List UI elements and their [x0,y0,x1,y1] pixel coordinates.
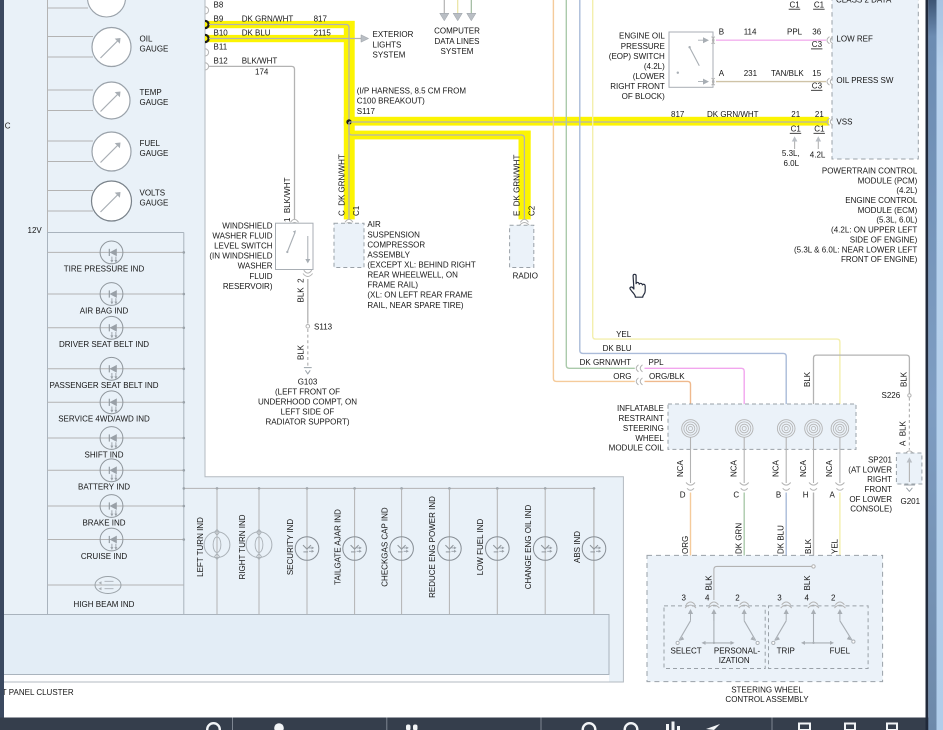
indicator lamp: ABS IND [573,487,606,614]
svg-text:4: 4 [805,593,810,602]
svg-text:COMPRESSOR: COMPRESSOR [367,240,425,249]
svg-text:S113: S113 [314,322,333,331]
switch: FUEL [830,621,855,656]
svg-text:YEL: YEL [616,330,632,339]
toolbar icon: marks [406,725,411,730]
connector pin H [803,483,818,500]
connector: steering wheel assembly pin 2 at x=744.2 [735,593,749,621]
svg-text:GAUGE: GAUGE [140,149,169,158]
wire: DK BLU down to steering wheel controls [785,493,787,601]
svg-text:ASSEMBLY: ASSEMBLY [367,250,410,259]
svg-text:B9: B9 [214,15,224,24]
svg-text:FLUID: FLUID [249,272,272,281]
module: inflatable restraint steering wheel module coil [609,404,856,453]
svg-text:HIGH BEAM IND: HIGH BEAM IND [74,600,135,609]
switch: SELECT [671,621,702,656]
svg-text:AIR: AIR [367,220,381,229]
indicator lamp: LEFT TURN IND [196,487,230,614]
inline connector (DK GRN/WHT : PPL) [636,365,642,372]
svg-text:PERSONAL-: PERSONAL- [714,647,761,656]
svg-text:RAIL, NEAR SPARE TIRE): RAIL, NEAR SPARE TIRE) [367,301,464,310]
wire: cluster 12V feed bus [47,0,49,233]
ground G103 [258,368,357,427]
svg-text:MODULE COIL: MODULE COIL [609,444,665,453]
wire: DK GRN/WHT 817 from B9 to S117 [209,15,349,220]
indicator lamp: SHIFT IND [48,427,186,460]
connector pin B11 (cluster) [205,42,228,56]
svg-text:LOW FUEL IND: LOW FUEL IND [476,518,485,575]
svg-text:BLK: BLK [803,575,812,591]
svg-text:A BLK: A BLK [898,420,907,446]
svg-text:B: B [776,491,781,500]
svg-text:ORG/BLK: ORG/BLK [649,372,685,381]
svg-text:PASSENGER SEAT BELT IND: PASSENGER SEAT BELT IND [49,381,158,390]
svg-text:(LOWER: (LOWER [633,72,665,81]
label: PCM / ECM description [794,167,918,265]
svg-text:(4.2L): (4.2L) [644,62,665,71]
connector at PCM VSS [827,118,833,125]
switch: engine oil pressure (EOP) switch [609,32,713,102]
svg-text:NCA: NCA [772,459,781,477]
indicator lamp: BRAKE IND [48,495,186,528]
svg-text:G103: G103 [298,377,318,386]
wire: DK BLU 2115 from B10 to exterior lights system [209,29,361,39]
wire: BLK down to steering wheel controls [813,493,815,601]
switch common bar (right, pin 4) [801,613,834,645]
svg-text:ABS IND: ABS IND [573,531,582,563]
wire: coil D down to connector [690,437,692,483]
connector: steering wheel assembly pin 3 at x=786.2 [777,593,791,621]
svg-text:DK GRN/WHT: DK GRN/WHT [580,358,632,367]
wire: ORG down to steering wheel controls [690,493,692,601]
svg-text:B: B [719,27,724,36]
gauge (cut off at top) [48,0,126,17]
svg-text:231: 231 [744,69,758,78]
highlight: circuit trace (yellow) [205,21,829,220]
wire: class 2 data line (grey) to computer data lines system [443,0,445,13]
svg-text:WHEEL: WHEEL [635,434,664,443]
svg-text:SHIFT IND: SHIFT IND [85,450,124,459]
svg-text:OF BLOCK): OF BLOCK) [622,92,665,101]
svg-text:WASHER: WASHER [238,262,273,271]
mouse cursor (hand pointer) [630,274,645,297]
indicator lamp: AIR BAG IND [48,283,186,316]
connector C1 C1 (class 2 data, cut at top) [789,0,892,10]
connector pin B10 (cluster) [205,29,228,43]
connector pin B [776,483,791,500]
svg-text:PRESSURE: PRESSURE [621,42,665,51]
svg-text:1 BLK/WHT: 1 BLK/WHT [283,177,292,222]
connector: washer switch pin 1 [290,219,300,225]
svg-text:WASHER FLUID: WASHER FLUID [212,232,272,241]
svg-text:(IN WINDSHIELD: (IN WINDSHIELD [209,252,272,261]
svg-text:C100 BREAKOUT): C100 BREAKOUT) [357,97,425,106]
svg-text:3: 3 [777,593,782,602]
svg-text:TEMP: TEMP [140,88,162,97]
indicator lamp: HIGH BEAM IND [48,577,184,609]
indicator lamp: CHECKGAS CAP IND [380,487,413,614]
off-page arrows: computer data lines system [434,13,480,56]
ground G201 [901,485,921,506]
wire: BLK from S113 to G103 [297,329,308,366]
indicator lamp: CRUISE IND [48,528,186,561]
svg-text:RADIO: RADIO [513,271,538,280]
right window border: light blue edge [937,0,943,730]
svg-text:C: C [733,491,739,500]
svg-text:ENGINE CONTROL: ENGINE CONTROL [845,196,918,205]
svg-text:DK BLU: DK BLU [242,29,271,38]
svg-text:C1: C1 [814,125,825,134]
svg-text:CHANGE ENG OIL IND: CHANGE ENG OIL IND [524,504,533,589]
module: steering wheel control assembly (outer dashed box) [647,555,883,681]
svg-text:B12: B12 [214,56,229,65]
coil (clockspring) at pin A [831,420,849,438]
wire: BLK from coil module pin H up and right to S226 [814,355,910,420]
svg-text:BLK 2: BLK 2 [297,278,306,303]
svg-text:REDUCE ENG POWER IND: REDUCE ENG POWER IND [428,496,437,598]
oil gauge [48,28,169,67]
switch group box (trip / fuel) [769,606,869,669]
wire: coil A down to connector [839,437,841,483]
svg-text:COMPUTER: COMPUTER [434,27,480,36]
svg-text:SELECT: SELECT [671,647,702,656]
switch: TRIP [772,621,795,656]
wire: coil H down to connector [813,437,815,483]
svg-text:C DK GRN/WHT: C DK GRN/WHT [338,154,347,216]
svg-text:BLK: BLK [804,538,813,554]
connector pin B12 (cluster) [205,56,228,70]
module: radio [510,225,538,280]
connector: washer switch pin 2 [303,270,313,276]
toolbar icon: circle 1 [207,723,220,730]
svg-text:DK BLU: DK BLU [777,525,786,554]
indicator lamp: PASSENGER SEAT BELT IND [48,357,186,390]
svg-text:RIGHT TURN IND: RIGHT TURN IND [238,514,247,579]
svg-text:AIR BAG IND: AIR BAG IND [80,306,129,315]
svg-text:RADIATOR SUPPORT): RADIATOR SUPPORT) [265,418,349,427]
svg-text:RIGHT: RIGHT [867,475,892,484]
svg-text:ORG: ORG [681,536,690,554]
svg-text:NCA: NCA [799,459,808,477]
toolbar icon: circle 2 [583,723,596,730]
left window edge (dark) [0,0,4,718]
svg-text:A: A [719,69,725,78]
svg-text:MODULE (ECM): MODULE (ECM) [858,206,918,215]
wire: ORG from top to inline connector (becomes ORG/BLK) [553,0,634,381]
svg-text:MODULE (PCM): MODULE (PCM) [858,176,918,185]
off-page arrow: exterior lights system [361,30,414,60]
svg-text:EXTERIOR: EXTERIOR [373,30,414,39]
switch group box (select / personalization) [664,606,765,669]
switch: PERSONALIZATION [714,621,761,665]
label: steering wheel control assembly [725,686,809,704]
svg-text:SP201: SP201 [868,456,893,465]
wire: BLK 2 from washer switch to S113 [297,278,308,324]
indicator lamp: SERVICE 4WD/AWD IND [48,391,186,424]
svg-text:PPL: PPL [787,27,803,36]
svg-text:(XL: ON LEFT REAR FRAME: (XL: ON LEFT REAR FRAME [367,291,472,300]
svg-text:BRAKE IND: BRAKE IND [82,518,125,527]
svg-text:C1: C1 [790,1,801,10]
svg-text:BLK: BLK [705,575,714,591]
indicator lamp: BATTERY IND [48,459,186,492]
instrument panel cluster interior fill (left column) [4,0,205,477]
svg-text:LIGHTS: LIGHTS [373,40,402,49]
svg-text:(I/P HARNESS, 8.5 CM FROM: (I/P HARNESS, 8.5 CM FROM [357,87,467,96]
svg-text:(5.3L, 6.0L): (5.3L, 6.0L) [876,216,917,225]
svg-text:TRIP: TRIP [777,647,795,656]
svg-text:114: 114 [744,27,757,36]
bottom toolbar [0,718,936,730]
junction: BLK branch node [714,565,815,600]
indicator lamp: REDUCE ENG POWER IND [428,487,461,614]
connector pin B8 (cluster) [205,0,224,14]
svg-text:CONSOLE): CONSOLE) [850,505,892,514]
svg-text:LEVEL SWITCH: LEVEL SWITCH [214,242,273,251]
wire: DK GRN/WHT from S117 to radio C2 [349,122,524,219]
svg-text:21: 21 [791,110,800,119]
svg-text:SYSTEM: SYSTEM [441,47,474,56]
splice S226 [882,391,912,400]
connector: steering wheel assembly pin 4 at x=813.5 [805,593,819,621]
svg-text:DK GRN/WHT: DK GRN/WHT [242,15,294,24]
svg-text:SIDE OF ENGINE): SIDE OF ENGINE) [850,235,918,244]
svg-text:NCA: NCA [730,459,739,477]
wire labels: YEL / DK BLU / DK GRN/WHT / PPL / ORG / ORG/BLK [580,330,686,381]
indicator lamp: SECURITY IND [286,487,319,614]
svg-text:NCA: NCA [676,459,685,477]
wire: DK BLU from top to coil module pin B [580,0,786,420]
temp gauge [48,82,169,119]
svg-text:INFLATABLE: INFLATABLE [617,404,664,413]
svg-text:SYSTEM: SYSTEM [373,51,406,60]
instrument panel cluster outline [0,0,623,682]
indicator lamp: TIRE PRESSURE IND [48,241,186,274]
fuel gauge [48,132,169,171]
svg-text:STEERING WHEEL: STEERING WHEEL [731,686,803,695]
toolbar icon: person [274,723,284,730]
svg-text:SECURITY IND: SECURITY IND [286,519,295,576]
svg-text:BLK: BLK [297,344,306,360]
indicator lamp box [48,233,184,615]
svg-text:817: 817 [314,15,328,24]
wire: DK GRN down to steering wheel controls [743,493,745,601]
connector at PCM OIL PRESS SW [827,78,833,85]
toolbar icon: send arrow [706,724,720,730]
svg-text:STEERING: STEERING [623,424,664,433]
svg-text:C1: C1 [814,1,825,10]
svg-text:FRONT OF ENGINE): FRONT OF ENGINE) [841,255,918,264]
connector C2 (radio) [519,219,529,225]
svg-text:(4.2L): (4.2L) [896,186,917,195]
svg-text:LEFT TURN IND: LEFT TURN IND [196,517,205,577]
coil (clockspring) at pin D [682,420,700,438]
svg-text:36: 36 [812,27,821,36]
connector pin A [830,483,845,500]
svg-text:NCA: NCA [825,459,834,477]
svg-text:POWERTRAIN CONTROL: POWERTRAIN CONTROL [822,167,918,176]
svg-text:TAN/BLK: TAN/BLK [771,69,804,78]
toolbar icon: square 1 [799,724,810,730]
svg-text:2: 2 [831,593,836,602]
indicator lamp: TAILGATE AJAR IND [333,487,366,614]
wire: coil B down to connector [785,437,787,483]
module: powertrain control module (PCM) dashed box [832,0,918,159]
connector at EOP pin A [712,78,715,85]
instrument panel cluster interior fill (lower area) [4,477,623,682]
svg-text:B11: B11 [214,42,228,51]
svg-text:FRAME RAIL): FRAME RAIL) [367,281,418,290]
svg-text:174: 174 [255,68,269,77]
svg-text:817: 817 [671,110,685,119]
svg-text:C1: C1 [352,205,361,216]
connector C1 (air suspension compressor) [344,219,354,225]
indicator lamp: RIGHT TURN IND [238,487,272,614]
wire: BLK A from S226 to SP201 [898,398,909,450]
svg-text:RIGHT FRONT: RIGHT FRONT [610,82,665,91]
svg-text:2115: 2115 [314,29,332,38]
svg-text:CLASS 2 DATA: CLASS 2 DATA [836,0,892,5]
wire: YEL from top to coil module pin A [593,0,840,420]
indicator lamp: DRIVER SEAT BELT IND [48,316,186,349]
svg-text:WINDSHIELD: WINDSHIELD [222,221,272,230]
toolbar icon: circle 3 [625,723,638,730]
coil (clockspring) at pin B [777,420,795,438]
svg-text:RESTRAINT: RESTRAINT [618,414,663,423]
svg-text:DATA LINES: DATA LINES [434,37,479,46]
wire: DK GRN/WHT from top to inline connector (becomes PPL) [566,0,635,368]
connector pin D [680,483,695,500]
svg-text:BLK: BLK [899,371,908,387]
svg-text:B10: B10 [214,29,229,38]
svg-text:S226: S226 [882,391,901,400]
svg-text:CRUISE IND: CRUISE IND [81,552,127,561]
svg-text:REAR WHEELWELL, ON: REAR WHEELWELL, ON [367,271,458,280]
coil (clockspring) at pin H [805,420,823,438]
svg-text:ENGINE OIL: ENGINE OIL [619,32,665,41]
splice S117 [346,87,466,125]
svg-text:CONTROL ASSEMBLY: CONTROL ASSEMBLY [725,695,809,704]
svg-text:FRONT: FRONT [864,485,892,494]
switch: windshield washer fluid level switch [209,221,313,291]
cluster bus bar box [0,615,609,675]
switch common bar (left, pin 4) [702,613,735,645]
svg-text:(AT LOWER: (AT LOWER [848,465,892,474]
right window border: blue band [928,0,936,730]
arrows: engine variant pointers 5.3L/6.0L and 4.2L [782,136,826,168]
svg-text:RESERVOIR): RESERVOIR) [223,282,273,291]
svg-text:SERVICE 4WD/AWD IND: SERVICE 4WD/AWD IND [58,415,150,424]
indicator lamp: LOW FUEL IND [476,487,509,614]
wire labels: 817 DK GRN/WHT to VSS pin 21 [671,110,825,133]
svg-text:C2: C2 [528,205,537,216]
svg-text:2: 2 [735,593,740,602]
svg-text:5.3L,: 5.3L, [782,149,800,158]
svg-text:TIRE PRESSURE IND: TIRE PRESSURE IND [64,265,145,274]
right window border: dark line [926,0,929,730]
svg-text:C1: C1 [791,125,802,134]
svg-text:BATTERY IND: BATTERY IND [78,483,130,492]
white gap below cluster fill [4,675,609,682]
inline connector (ORG : ORG/BLK) [636,378,642,385]
svg-text:BLK: BLK [803,371,812,387]
svg-text:OIL: OIL [140,35,153,44]
svg-text:6.0L: 6.0L [784,159,800,168]
svg-text:FUEL: FUEL [140,139,161,148]
svg-text:YEL: YEL [830,538,839,554]
svg-text:UNDERHOOD COMPT, ON: UNDERHOOD COMPT, ON [258,398,357,407]
svg-text:GAUGE: GAUGE [140,98,169,107]
svg-text:TAILGATE AJAR IND: TAILGATE AJAR IND [333,509,342,585]
svg-text:G201: G201 [901,497,921,506]
svg-text:12V: 12V [28,226,43,235]
svg-text:B8: B8 [214,0,224,9]
svg-text:LEFT SIDE OF: LEFT SIDE OF [281,408,335,417]
svg-text:GAUGE: GAUGE [140,44,169,53]
svg-text:4.2L: 4.2L [810,151,826,160]
toolbar icon: square 3 [887,724,897,730]
wire: YEL down to steering wheel controls [839,493,841,601]
svg-text:DK GRN: DK GRN [735,523,744,554]
svg-text:IZATION: IZATION [719,656,750,665]
svg-text:(4.2L: ON UPPER LEFT: (4.2L: ON UPPER LEFT [831,226,917,235]
svg-text:GAUGE: GAUGE [140,198,169,207]
wire: coil C down to connector [743,437,745,483]
volts gauge [48,181,169,221]
splice S113 [306,322,333,331]
wire: DK GRN/WHT 817 from S117 to PCM VSS [349,121,827,123]
indicator lamp: CHANGE ENG OIL IND [524,487,557,614]
wire: class 2 data line (green) [470,0,472,13]
svg-text:D: D [680,491,686,500]
svg-text:SUSPENSION: SUSPENSION [367,230,420,239]
svg-text:(EXCEPT XL: BEHIND RIGHT: (EXCEPT XL: BEHIND RIGHT [367,261,475,270]
connector: steering wheel assembly pin 2 at x=839.9 [831,593,845,621]
svg-text:T PANEL CLUSTER: T PANEL CLUSTER [2,688,74,697]
wire: BLK/WHT 174 from B12 to washer fluid level switch [209,56,295,219]
svg-text:DRIVER SEAT BELT IND: DRIVER SEAT BELT IND [59,340,149,349]
svg-text:C3: C3 [812,40,823,49]
svg-text:CHECKGAS CAP IND: CHECKGAS CAP IND [380,507,389,587]
svg-text:BLK/WHT: BLK/WHT [242,56,278,65]
svg-text:4: 4 [705,593,710,602]
svg-text:15: 15 [812,69,821,78]
wire: PPL 114 from EOP B to PCM LOW REF pin 36 [716,27,826,49]
wire: PPL from connector to coil module pin C [645,368,745,420]
svg-text:FUEL: FUEL [830,647,851,656]
connector at PCM LOW REF [827,37,833,44]
splice pack SP201 [848,453,922,514]
svg-text:OF LOWER: OF LOWER [849,495,892,504]
svg-text:DK BLU: DK BLU [603,344,632,353]
connector pin B9 (cluster) [205,15,224,29]
svg-text:ORG: ORG [613,372,631,381]
module: air suspension compressor assembly [334,220,476,310]
svg-text:(EOP) SWITCH: (EOP) SWITCH [609,52,665,61]
wire: cluster internal bus to lamp row [184,488,594,614]
wire: ORG/BLK from connector to coil module pin D [645,381,691,420]
svg-text:DK GRN/WHT: DK GRN/WHT [707,110,759,119]
svg-text:OIL PRESS SW: OIL PRESS SW [836,76,894,85]
svg-text:(5.3L & 6.0L: NEAR LOWER LEFT: (5.3L & 6.0L: NEAR LOWER LEFT [794,245,917,254]
connector: steering wheel assembly pin 3 at x=690.5 [682,593,696,621]
connector pin C [733,483,748,500]
svg-text:A: A [830,491,836,500]
svg-text:H: H [803,491,809,500]
toolbar icon: bars [666,724,669,730]
connector: steering wheel assembly pin 4 at x=713.9 [705,593,719,621]
svg-text:21: 21 [815,110,824,119]
